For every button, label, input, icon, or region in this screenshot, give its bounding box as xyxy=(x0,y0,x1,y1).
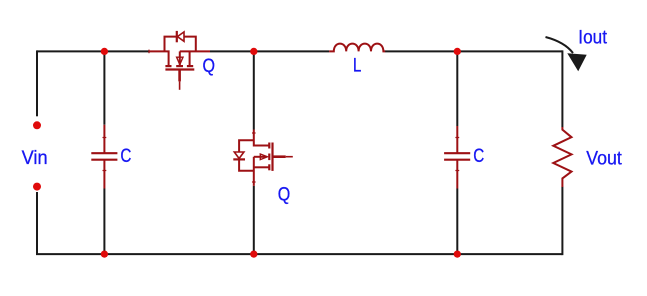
wire right rail top xyxy=(561,50,563,127)
Q1 body diode triangle xyxy=(177,32,184,41)
Q1 channel bulk contact xyxy=(176,65,183,67)
Q1 gate plate xyxy=(165,68,194,70)
Q2 gate plate xyxy=(271,143,273,171)
Q1 source-side rail xyxy=(180,50,210,52)
C1 top lead xyxy=(103,125,105,153)
Q2 bottom pin tick xyxy=(252,181,256,183)
wire inductor to output node xyxy=(385,50,458,52)
node dot bottom C2 xyxy=(454,250,461,257)
Q2 bulk arrow xyxy=(260,154,267,160)
svg-text:Q: Q xyxy=(278,184,291,205)
resistor R (Vout load) xyxy=(553,127,571,187)
wire output node to top-right corner xyxy=(457,50,562,52)
Q2 body diode cathode bar xyxy=(233,158,245,160)
Q1 channel source contact xyxy=(187,65,193,67)
svg-text:C: C xyxy=(120,146,131,167)
node dot bottom Q2 xyxy=(250,250,257,257)
Vin terminal dot - xyxy=(33,183,41,191)
Q2 gate lead thick part xyxy=(272,155,285,158)
wire C2 top xyxy=(456,51,458,126)
Q2 bulk branch xyxy=(254,156,266,158)
wire C2 bottom xyxy=(456,189,458,255)
Q2 channel source contact xyxy=(268,164,270,170)
Q2 source branch xyxy=(254,166,270,168)
C2 top lead xyxy=(456,126,458,153)
node dot bottom C1 xyxy=(101,250,108,257)
wire Q2 source down to bottom rail xyxy=(253,186,255,254)
C1 top plate xyxy=(91,152,117,154)
junction node dots xyxy=(33,48,461,258)
wire left vertical to Vin+ xyxy=(36,50,38,116)
Q1 source branch xyxy=(189,51,191,66)
wire C1 top xyxy=(103,51,105,124)
svg-text:Q: Q xyxy=(203,56,216,77)
Q2 body diode loop bottom xyxy=(239,159,254,170)
wire Q1 source to inductor xyxy=(210,50,329,52)
transistor Q2 (low-side MOSFET with body diode) xyxy=(233,130,292,186)
Q1 gate lead thin part xyxy=(179,81,181,89)
inductor L xyxy=(329,44,385,52)
C1 pin tick bottom xyxy=(103,170,107,172)
C2 top plate xyxy=(444,152,470,154)
wire right rail bottom xyxy=(561,187,563,255)
C1 bottom lead xyxy=(103,160,105,189)
Q2 bulk-source rail xyxy=(253,157,255,186)
C2 pin tick top xyxy=(455,137,459,139)
Q2 gate lead thin part xyxy=(286,156,293,158)
C1 pin tick top xyxy=(103,137,107,139)
wire switch node down to Q2 drain xyxy=(253,51,255,129)
Q1 body diode loop left xyxy=(165,37,177,52)
Vin terminal dot + xyxy=(33,121,41,129)
svg-text:L: L xyxy=(353,56,362,77)
Q1 body diode loop right xyxy=(184,37,196,52)
C2 pin tick bottom xyxy=(455,170,459,172)
node dot top C1 xyxy=(101,48,108,55)
Q1 pin tick left xyxy=(148,50,150,54)
Q2 channel drain contact xyxy=(268,143,270,149)
C2 bottom plate xyxy=(444,159,470,161)
svg-text:C: C xyxy=(473,146,484,167)
wire top-left horizontal xyxy=(37,50,149,52)
svg-text:Vout: Vout xyxy=(586,148,622,169)
node dot switch node xyxy=(250,48,257,55)
Q2 drain lead xyxy=(254,130,270,146)
wire Vin- vertical down xyxy=(36,192,38,254)
svg-text:Vin: Vin xyxy=(22,148,48,169)
wire C1 bottom xyxy=(103,189,105,255)
Q1 drain lead xyxy=(149,51,169,66)
Q2 body diode triangle xyxy=(234,152,244,159)
transistor Q1 (high-side MOSFET with body diode) xyxy=(149,31,210,90)
Iout current arrow xyxy=(546,37,587,71)
Q1 channel drain contact xyxy=(165,65,171,67)
wire bottom rail xyxy=(36,253,562,255)
capacitor C2 xyxy=(444,126,470,189)
Q2 channel bulk contact xyxy=(268,154,270,161)
svg-text:Iout: Iout xyxy=(578,28,607,49)
Q1 bulk branch xyxy=(179,51,181,65)
Q1 gate lead thick part xyxy=(178,69,181,81)
C1 bottom plate xyxy=(91,159,117,161)
Q1 body diode cathode bar xyxy=(176,31,178,42)
Q2 drain pin tick xyxy=(252,132,256,134)
Q2 body diode loop top xyxy=(239,140,254,152)
Q1 bulk arrow xyxy=(177,57,183,64)
node dot output top xyxy=(454,48,461,55)
C2 bottom lead xyxy=(456,160,458,189)
capacitor C1 xyxy=(91,125,117,189)
